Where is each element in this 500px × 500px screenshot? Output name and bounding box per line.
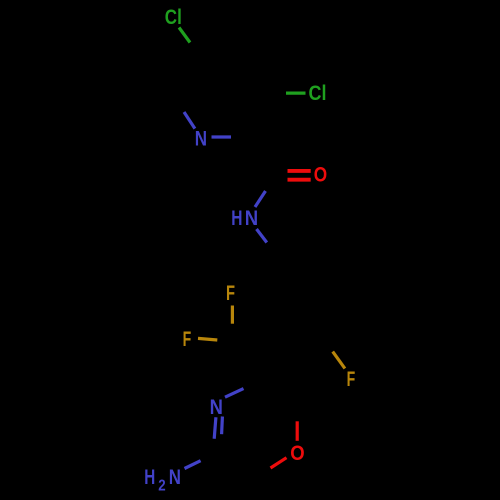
bond N1-C2 pyridine (half near N, blue) — [212, 135, 232, 138]
bond N4-C3 amine (half near N, blue) — [185, 461, 201, 469]
bond C5-Cl1 (half near Cl, green) — [179, 28, 190, 43]
svg-text:H: H — [231, 207, 242, 230]
svg-text:N: N — [195, 128, 207, 151]
bond C-F2 (half near F, gold, horizontal) — [198, 338, 217, 340]
bond N2-C(=O) amide (half near N, blue) — [255, 191, 266, 207]
bond C=O carbonyl double line 2 (red) — [288, 178, 311, 182]
bond C3-Cl2 (half near Cl, green) — [286, 91, 306, 94]
svg-text:O: O — [314, 164, 327, 187]
bond N3=C3 oxazine double main line (blue, vertical) — [214, 417, 216, 439]
svg-text:O: O — [290, 442, 304, 465]
bond O2-C6 oxazine (half near O, red, vertical) — [296, 421, 299, 441]
bond N1-C6 pyridine (half near N, blue) — [184, 112, 195, 129]
bond C=O carbonyl double line 1 (red) — [288, 169, 311, 173]
bond N2-CH2 amide (half near N, blue) — [257, 229, 267, 243]
svg-text:2: 2 — [158, 477, 165, 494]
bond N3=C3 oxazine double inner line (blue, vertical) — [220, 417, 224, 435]
bond C-F1 (half near F, gold, vertical) — [231, 306, 234, 324]
bond C-F3 (half near F, gold, diagonal) — [333, 352, 345, 369]
bond N3-C5 oxazine (half near N, blue, up-right) — [225, 389, 244, 398]
svg-text:F: F — [183, 328, 192, 351]
svg-text:Cl: Cl — [309, 82, 327, 105]
bond O2-C2 oxazine (half near O, red, diagonal) — [271, 458, 287, 468]
svg-text:F: F — [226, 282, 235, 305]
svg-text:Cl: Cl — [165, 6, 182, 29]
svg-text:H: H — [144, 466, 155, 489]
svg-text:F: F — [347, 368, 356, 391]
svg-text:N: N — [169, 466, 181, 489]
svg-text:N: N — [245, 207, 258, 230]
svg-text:N: N — [210, 396, 223, 419]
